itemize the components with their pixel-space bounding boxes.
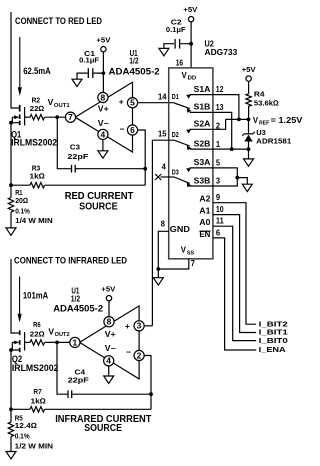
pin circle 5 [127, 98, 137, 108]
wire S1B down to S2B [190, 112, 232, 149]
svg-text:SS: SS [187, 250, 194, 256]
svg-text:DD: DD [188, 76, 197, 82]
svg-text:1/2: 1/2 [129, 57, 139, 66]
wire VREF line [226, 118, 249, 120]
capacitor C3 [67, 143, 88, 173]
svg-text:ADG733: ADG733 [205, 47, 238, 57]
svg-text:5: 5 [130, 99, 135, 108]
op-amp U1 1/2 ADA4505-2 (bottom) [53, 286, 139, 379]
ground below R5 [6, 452, 16, 459]
node VOUT1 [55, 115, 59, 119]
svg-text:1/2 W MIN: 1/2 W MIN [15, 441, 53, 450]
wire A0 to I_BIT0 [213, 226, 256, 340]
wire R2 to op-amp [45, 116, 66, 118]
resistor R6 [30, 320, 45, 345]
svg-text:1kΩ: 1kΩ [31, 397, 47, 406]
svg-text:= 1.25V: = 1.25V [271, 116, 304, 125]
switch S1B contact arrow [187, 108, 192, 113]
svg-text:6: 6 [130, 126, 135, 135]
wire VOUT2 down to C4 [57, 342, 67, 394]
svg-text:S2B: S2B [194, 138, 211, 148]
svg-text:15: 15 [158, 130, 167, 139]
svg-text:D1: D1 [172, 92, 179, 101]
svg-text:0.1μF: 0.1μF [79, 55, 99, 64]
node VOUT2 [55, 341, 59, 345]
node R3 left rail junction [9, 183, 13, 187]
svg-text:8: 8 [101, 93, 106, 102]
svg-text:V: V [182, 71, 188, 80]
resistor R7 [30, 387, 46, 412]
zener diode U3 ADR1581 [242, 119, 291, 158]
svg-text:4: 4 [101, 130, 106, 139]
svg-text:−: − [126, 347, 131, 357]
resistor R2 [30, 96, 45, 120]
svg-text:R7: R7 [33, 387, 41, 396]
resistor R1 [8, 188, 52, 225]
svg-text:S3B: S3B [194, 175, 211, 185]
svg-text:16: 16 [176, 58, 184, 67]
wire pin4 to ground [102, 140, 104, 151]
svg-text:14: 14 [158, 93, 167, 102]
svg-text:13: 13 [216, 103, 224, 112]
mux U2 ADG733 box [169, 68, 213, 259]
svg-text:OUT2: OUT2 [55, 332, 70, 338]
capacitor C1 [77, 49, 103, 79]
pin circle 8 (bottom) [104, 317, 114, 327]
wire junction to ground [157, 269, 159, 278]
svg-text:S1A: S1A [194, 84, 211, 94]
no-connect X on D3 [155, 174, 161, 180]
svg-text:8: 8 [161, 220, 166, 229]
svg-text:22Ω: 22Ω [30, 104, 45, 113]
wire infrared LED rail [11, 259, 19, 333]
svg-text:+5V: +5V [96, 35, 110, 44]
svg-text:D3: D3 [172, 168, 179, 177]
wire VOUT1 down to C3 [57, 117, 71, 169]
node GND/VSS junction [156, 267, 160, 271]
wire junction to ground [237, 178, 247, 185]
wire pin5 to D1 [138, 102, 175, 104]
resistor R3 [30, 163, 46, 188]
svg-text:CONNECT TO RED LED: CONNECT TO RED LED [15, 16, 102, 26]
svg-text:1kΩ: 1kΩ [30, 171, 46, 180]
switch S2A contact arrow [186, 130, 191, 134]
svg-text:101mA: 101mA [23, 291, 49, 301]
resistor R4 [246, 81, 279, 119]
wire pin3 to D2 line [144, 325, 152, 327]
svg-text:ADR1581: ADR1581 [256, 137, 291, 146]
wire S2B to U3 anode [190, 148, 249, 150]
wire pin2 feedback vertical [144, 356, 151, 410]
capacitor C4 [68, 367, 89, 398]
wire D3 stub [161, 176, 175, 178]
node S1A/VREF junction [237, 118, 241, 122]
wire left rail to R1 [10, 123, 12, 198]
svg-text:3: 3 [137, 322, 142, 331]
svg-text:1: 1 [216, 140, 221, 149]
switch S2B contact arrow [187, 145, 192, 150]
svg-text:V: V [48, 97, 54, 107]
svg-text:+5V: +5V [242, 65, 256, 74]
svg-text:V: V [253, 116, 259, 125]
wire R7 line [11, 408, 151, 410]
svg-text:22pF: 22pF [68, 375, 89, 384]
node C4/R7 feedback junction [149, 392, 153, 396]
svg-text:S1B: S1B [194, 102, 211, 112]
capacitor C2 [164, 18, 191, 49]
svg-text:GND: GND [170, 225, 190, 234]
wire red LED rail [11, 12, 19, 108]
svg-text:I_ENA: I_ENA [259, 345, 287, 354]
op-amp U1 1/2 ADA4505-2 (top) [75, 49, 160, 152]
node C1 junction [102, 71, 106, 75]
resistor R5 [8, 413, 53, 450]
svg-text:S2A: S2A [194, 119, 211, 129]
ground below R1 [6, 228, 16, 235]
node S3A/S3B junction [235, 176, 239, 180]
svg-text:SOURCE: SOURCE [84, 423, 122, 434]
svg-text:C3: C3 [70, 143, 80, 152]
switch S1 lever [174, 103, 190, 109]
svg-text:8: 8 [107, 318, 112, 327]
node U3 anode/S2B junction [247, 147, 251, 151]
svg-text:A2: A2 [199, 194, 210, 204]
svg-text:10: 10 [216, 205, 224, 214]
wire S3A to junction [190, 168, 238, 178]
svg-text:R4: R4 [254, 90, 266, 99]
wire R6 to op-amp2 [45, 341, 70, 343]
pin circle 6 [127, 125, 137, 135]
ground U3 [244, 159, 254, 166]
svg-text:1/4 W MIN: 1/4 W MIN [15, 216, 53, 225]
svg-text:ADA4505-2: ADA4505-2 [53, 303, 103, 314]
svg-text:+: + [125, 321, 130, 331]
wire R1 to ground [10, 212, 12, 228]
pin circle 3 [134, 321, 144, 331]
wire R5 to ground [10, 437, 12, 452]
switch S1A contact arrow [186, 95, 191, 99]
wire A2 to I_BIT2 [213, 203, 256, 325]
wire pin4 to ground (bottom) [108, 366, 110, 376]
transistor Q1 IRLMS2002 [11, 105, 57, 148]
svg-text:62.5mA: 62.5mA [23, 66, 51, 76]
ground GND/VSS [153, 278, 163, 285]
svg-text:22Ω: 22Ω [30, 329, 45, 338]
svg-text:2: 2 [137, 351, 142, 360]
svg-text:22pF: 22pF [67, 152, 88, 161]
svg-text:1: 1 [73, 338, 78, 347]
svg-text:+5V: +5V [101, 284, 115, 293]
transistor Q2 IRLMS2002 [11, 330, 58, 373]
wire left rail to R5 [10, 350, 12, 422]
node Q2 source junction [9, 348, 13, 352]
svg-text:12: 12 [216, 85, 224, 94]
svg-text:V+: V+ [98, 105, 109, 114]
svg-text:53.6kΩ: 53.6kΩ [254, 98, 279, 107]
svg-text:A1: A1 [199, 206, 210, 216]
pin circle 2 [134, 350, 144, 360]
pin circle 1 [70, 337, 80, 347]
svg-text:S3A: S3A [194, 157, 211, 167]
wire +5V to pin8 [102, 52, 104, 93]
ground C1 [72, 79, 82, 86]
node Q1 source junction [9, 121, 13, 125]
svg-text:V+: V+ [105, 330, 116, 339]
svg-text:IRLMS2002: IRLMS2002 [12, 363, 59, 373]
svg-text:IRLMS2002: IRLMS2002 [11, 138, 57, 148]
ground op-amp1 V- [98, 151, 108, 158]
node S1B/S2B junction [230, 147, 234, 151]
svg-text:EN: EN [199, 229, 210, 239]
wire A1 to I_BIT1 [213, 215, 256, 333]
svg-text:OUT1: OUT1 [54, 103, 70, 109]
svg-text:−: − [120, 124, 125, 134]
wire VSS pin7 [158, 259, 189, 269]
switch S2 lever [174, 140, 190, 146]
wire EN to I_ENA [213, 238, 256, 350]
wire S1A to VREF [190, 95, 239, 120]
node R4/VREF junction [247, 118, 251, 122]
switch S3 lever [174, 177, 190, 183]
wire C4 to inverting node [72, 393, 151, 395]
svg-text:V: V [181, 246, 187, 255]
svg-text:7: 7 [191, 259, 195, 268]
wire +5V to pin8 [108, 301, 110, 317]
svg-text:ADA4505-2: ADA4505-2 [109, 67, 160, 78]
wire C3 to inverting node [76, 168, 145, 170]
svg-text:R6: R6 [33, 320, 41, 329]
pin circle 4 (bottom) [104, 356, 114, 366]
wire S3B to junction [190, 178, 238, 186]
node C2 junction [189, 42, 193, 46]
svg-text:12.4Ω: 12.4Ω [15, 421, 38, 430]
svg-text:20Ω: 20Ω [15, 196, 28, 205]
wire S2A to VREF [190, 119, 226, 129]
wire GND pin8 [158, 231, 168, 269]
svg-text:4: 4 [162, 162, 167, 171]
svg-text:5: 5 [216, 158, 221, 167]
svg-text:7: 7 [68, 113, 73, 122]
svg-text:SOURCE: SOURCE [79, 201, 118, 212]
svg-text:0.1%: 0.1% [15, 206, 30, 215]
pin circle 8 [98, 92, 108, 102]
svg-text:V: V [48, 326, 54, 336]
svg-text:A0: A0 [199, 217, 210, 227]
svg-text:I_BIT0: I_BIT0 [259, 336, 288, 345]
ground S3 [242, 184, 252, 191]
wire D2 to op-amp2 [152, 140, 174, 326]
svg-text:D2: D2 [172, 130, 179, 139]
svg-text:+: + [119, 96, 124, 106]
switch S3B contact arrow [187, 183, 192, 188]
svg-text:0.1μF: 0.1μF [166, 25, 186, 34]
pin circle 7 [65, 112, 75, 122]
svg-text:11: 11 [216, 217, 224, 226]
pin circle 4 [98, 129, 108, 139]
ground op-amp2 V- [104, 376, 114, 383]
svg-text:9: 9 [216, 193, 221, 202]
node C3/R3 feedback junction [143, 167, 147, 171]
svg-text:V−: V− [98, 119, 109, 128]
svg-text:6: 6 [216, 228, 221, 237]
svg-text:4: 4 [106, 357, 111, 366]
svg-text:3: 3 [216, 176, 221, 185]
svg-text:0.1%: 0.1% [15, 432, 30, 441]
current arrow 101mA [19, 277, 21, 315]
svg-text:+5V: +5V [183, 5, 197, 14]
switch S3A contact arrow [186, 168, 191, 172]
svg-text:CONNECT TO INFRARED LED: CONNECT TO INFRARED LED [14, 255, 127, 265]
svg-text:REF: REF [259, 121, 270, 127]
svg-text:V−: V− [105, 344, 116, 353]
ground C2 [159, 48, 169, 55]
node R7 left rail junction [9, 407, 13, 411]
current arrow 62.5mA [19, 37, 21, 88]
wire R3 line [11, 184, 145, 186]
wire VDD pin16 [190, 22, 192, 68]
wire pin6 feedback vertical [138, 130, 146, 185]
